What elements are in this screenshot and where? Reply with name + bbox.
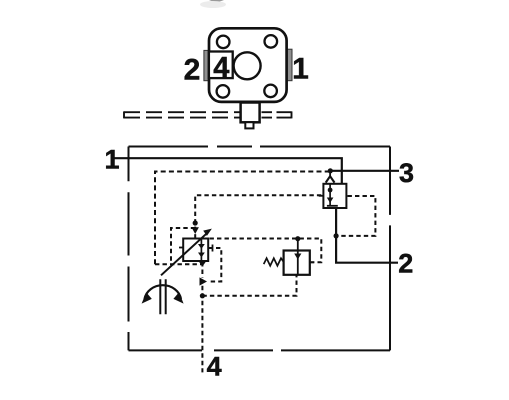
svg-text:1: 1: [104, 145, 119, 175]
dashed pilot to spring valve top: [210, 239, 322, 263]
mounting plate dashed lines left: [124, 111, 241, 118]
svg-text:2: 2: [398, 249, 413, 279]
adjustment diagonal arrow through U1: [161, 233, 208, 276]
node: junction above valve U1: [193, 220, 198, 225]
valve U1 inner flow line: [200, 239, 202, 261]
left clamp tab: [204, 50, 210, 80]
U2 inner flow line: [297, 239, 299, 275]
dashed port 4 vertical line: [201, 262, 203, 372]
bolt hole bottom-left: [217, 85, 230, 98]
svg-text:4: 4: [207, 352, 222, 382]
enclosure border right: [389, 147, 391, 351]
dashed line B right of valve U3: [337, 196, 375, 236]
dashed envelope A left/top: [155, 172, 330, 265]
node: junction on line 4: [200, 293, 205, 298]
port 4 box: [209, 52, 233, 79]
mounting plate lines right: [262, 111, 292, 118]
svg-text:4: 4: [213, 52, 229, 84]
spring valve U2 body: [284, 251, 310, 275]
node: junction above spring valve U2: [295, 236, 300, 241]
bolt hole top-right: [265, 35, 278, 48]
enclosure border top: [129, 146, 391, 148]
svg-text:1: 1: [292, 53, 309, 86]
bolt hole top-left: [217, 36, 230, 49]
right clamp tab: [287, 49, 293, 80]
down arrow on U1 top pilot: [192, 227, 199, 234]
U2 right port stub: [310, 261, 314, 263]
dashed bottom pilot to spring valve: [202, 275, 296, 296]
check valve arrow above U3: [329, 172, 331, 177]
dashed envelope A bottom: [155, 263, 202, 265]
scan smudge top center: [209, 0, 224, 2]
port line 2: [336, 208, 398, 263]
valve U3 internals: [329, 184, 331, 206]
dashed box C around valve U1: [171, 228, 195, 264]
valve U1 body (pressure compensator): [183, 239, 208, 262]
stem below body: [241, 103, 260, 123]
enclosure border bottom: [129, 349, 391, 351]
port line 3: [330, 170, 399, 172]
svg-text:3: 3: [399, 158, 414, 188]
valve body outline: [209, 28, 287, 102]
node: junction on line 2: [334, 233, 339, 238]
node: junction dot port 3: [328, 168, 333, 173]
dashed drain from U1 right port: [208, 248, 221, 282]
enclosure border left: [128, 147, 130, 351]
bolt hole bottom-right: [264, 85, 277, 98]
dashed pilot supply B: [195, 195, 322, 238]
valve U3 body (port 3 valve): [323, 184, 346, 208]
center port circle: [234, 52, 261, 79]
arrow below U1 bottom: [199, 261, 207, 266]
arrow into port4 line: [200, 277, 208, 285]
valve U3 left port stub: [319, 195, 324, 197]
U1 left port stub: [179, 247, 183, 249]
U1 right port stub: [208, 245, 212, 252]
stem nub: [245, 122, 253, 128]
port line 1: [114, 158, 342, 184]
svg-text:2: 2: [184, 54, 201, 87]
U2 spring: [264, 258, 284, 266]
rotary actuator symbol: [160, 279, 165, 314]
